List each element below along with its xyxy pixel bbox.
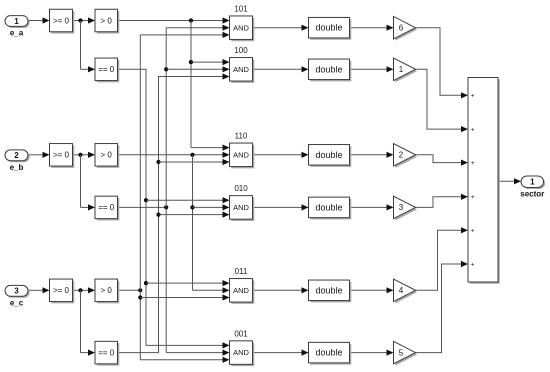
svg-text:1: 1 — [14, 17, 19, 26]
svg-text:4: 4 — [399, 286, 404, 295]
svg-text:3: 3 — [399, 203, 404, 212]
svg-text:> 0: > 0 — [101, 151, 113, 160]
svg-text:== 0: == 0 — [98, 65, 115, 74]
svg-text:> 0: > 0 — [101, 286, 113, 295]
svg-text:> 0: > 0 — [101, 16, 113, 25]
svg-text:double: double — [315, 150, 342, 160]
svg-text:== 0: == 0 — [98, 348, 115, 357]
svg-text:AND: AND — [233, 65, 249, 74]
svg-text:>= 0: >= 0 — [53, 16, 70, 25]
svg-text:3: 3 — [14, 287, 19, 296]
svg-text:+: + — [471, 194, 475, 201]
svg-text:1: 1 — [399, 65, 404, 74]
svg-text:1: 1 — [530, 178, 535, 187]
svg-text:double: double — [315, 285, 342, 295]
svg-text:+: + — [471, 261, 475, 268]
svg-text:AND: AND — [233, 286, 249, 295]
svg-text:110: 110 — [235, 132, 248, 141]
svg-text:010: 010 — [234, 184, 248, 193]
svg-text:double: double — [315, 348, 342, 358]
svg-text:double: double — [315, 64, 342, 74]
svg-text:AND: AND — [233, 348, 249, 357]
svg-text:AND: AND — [233, 23, 249, 32]
svg-text:001: 001 — [234, 329, 248, 338]
svg-text:011: 011 — [235, 267, 248, 276]
svg-text:+: + — [471, 93, 475, 100]
svg-text:+: + — [471, 126, 475, 133]
svg-text:+: + — [471, 228, 475, 235]
svg-text:101: 101 — [234, 4, 248, 13]
svg-text:e_b: e_b — [10, 163, 24, 172]
svg-text:double: double — [315, 23, 342, 33]
svg-text:100: 100 — [234, 46, 248, 55]
svg-text:sector: sector — [520, 190, 544, 199]
svg-text:2: 2 — [399, 151, 404, 160]
svg-text:e_c: e_c — [10, 299, 24, 308]
svg-text:+: + — [471, 160, 475, 167]
svg-text:e_a: e_a — [10, 29, 24, 38]
svg-text:AND: AND — [233, 150, 249, 159]
svg-text:== 0: == 0 — [98, 203, 115, 212]
svg-text:>= 0: >= 0 — [53, 286, 70, 295]
svg-text:6: 6 — [399, 24, 404, 33]
svg-text:double: double — [315, 202, 342, 212]
svg-text:AND: AND — [233, 203, 249, 212]
svg-text:5: 5 — [399, 348, 404, 357]
svg-text:>= 0: >= 0 — [53, 151, 70, 160]
svg-text:2: 2 — [14, 151, 19, 160]
